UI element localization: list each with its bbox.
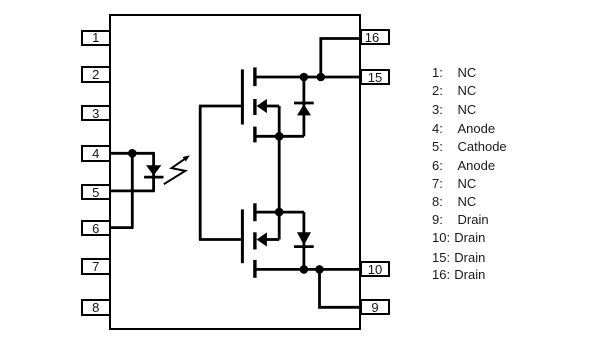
Q2 gate bar xyxy=(241,209,244,263)
pin 4 box xyxy=(81,145,112,162)
junction dot Q2 body-source xyxy=(275,208,284,217)
Q2 source wire xyxy=(255,211,304,214)
pin 6 box xyxy=(81,220,112,237)
pin list row 5 Cathode xyxy=(432,140,443,153)
junction dot Q2 drain-diode xyxy=(300,265,309,274)
Q1 source wire xyxy=(255,135,304,138)
pin list row 3 NC xyxy=(432,103,443,116)
wire pin6 to pin4 vertical link xyxy=(131,153,134,227)
junction dot pin 9 branch xyxy=(315,265,324,274)
wire pin 4 anode lead xyxy=(110,152,155,155)
Q2 body arrow xyxy=(257,232,267,246)
junction dot Q1 body-source xyxy=(275,132,284,141)
Q1 body wire xyxy=(265,105,279,108)
pin 16 box xyxy=(360,29,391,45)
pin 2 box xyxy=(81,66,112,83)
Q1 body arrow xyxy=(257,99,267,113)
pin list row 9 Drain xyxy=(432,213,443,226)
pin list row 8 NC xyxy=(432,195,443,208)
Q1 channel segment (drain) xyxy=(253,67,256,86)
pin 8 box xyxy=(81,299,112,316)
pin 7 box xyxy=(81,258,112,275)
Q2 gate lead wire xyxy=(199,238,241,241)
wire pin 16 branch xyxy=(321,39,360,78)
LED D1 vertical wire xyxy=(152,153,155,191)
LED D1 triangle xyxy=(146,165,161,175)
pin 3 box xyxy=(81,105,112,122)
Q1 gate lead wire xyxy=(199,105,241,108)
Q2 channel segment (body) xyxy=(253,232,256,249)
pin list row 7 NC xyxy=(432,177,443,190)
source-source link vertical wire xyxy=(278,106,281,240)
LED D1 cathode bar xyxy=(144,176,163,179)
Q2 body diode vertical wire xyxy=(302,212,305,269)
Q2 body diode triangle xyxy=(297,232,311,245)
IC body U1 outline xyxy=(109,14,361,330)
pin 9 box xyxy=(360,299,391,315)
wire pin 9 branch xyxy=(320,269,361,307)
pin list row 10 Drain xyxy=(432,231,450,244)
junction dot pin 4 node xyxy=(128,149,137,158)
pin list row 2 NC xyxy=(432,84,443,97)
pin list row 15 Drain xyxy=(432,251,450,264)
Q1 channel segment (body) xyxy=(253,99,256,115)
wire pin 6 anode lead xyxy=(110,226,134,229)
Q2 channel segment (source) xyxy=(253,203,256,221)
junction dot pin 16 branch xyxy=(317,73,326,82)
Q1 gate bar xyxy=(241,69,244,124)
Q1 body diode vertical wire xyxy=(302,77,305,136)
Q2 channel segment (drain) xyxy=(253,260,256,278)
Q1 body diode cathode bar xyxy=(294,102,314,105)
Q2 body diode cathode bar xyxy=(294,245,314,248)
Q1 drain wire to pin 15 xyxy=(255,76,360,79)
gate bus vertical wire xyxy=(199,106,202,240)
pin 15 box xyxy=(360,69,391,85)
pin list row 16 Drain xyxy=(432,268,450,281)
pin list row 1 NC xyxy=(432,66,443,79)
pin 1 box xyxy=(81,30,112,47)
pin 5 box xyxy=(81,184,112,201)
Q1 body diode triangle xyxy=(297,104,311,115)
pin list row 6 Anode xyxy=(432,159,443,172)
Q2 body wire xyxy=(265,238,279,241)
LED light emission arrow xyxy=(164,155,190,184)
pin 10 box xyxy=(360,261,391,277)
Q2 drain wire to pin 10 xyxy=(255,268,360,271)
junction dot Q1 drain-diode xyxy=(300,73,309,82)
pin list row 4 Anode xyxy=(432,122,443,135)
Q1 channel segment (source) xyxy=(253,127,256,143)
wire pin 5 cathode lead xyxy=(110,189,155,192)
